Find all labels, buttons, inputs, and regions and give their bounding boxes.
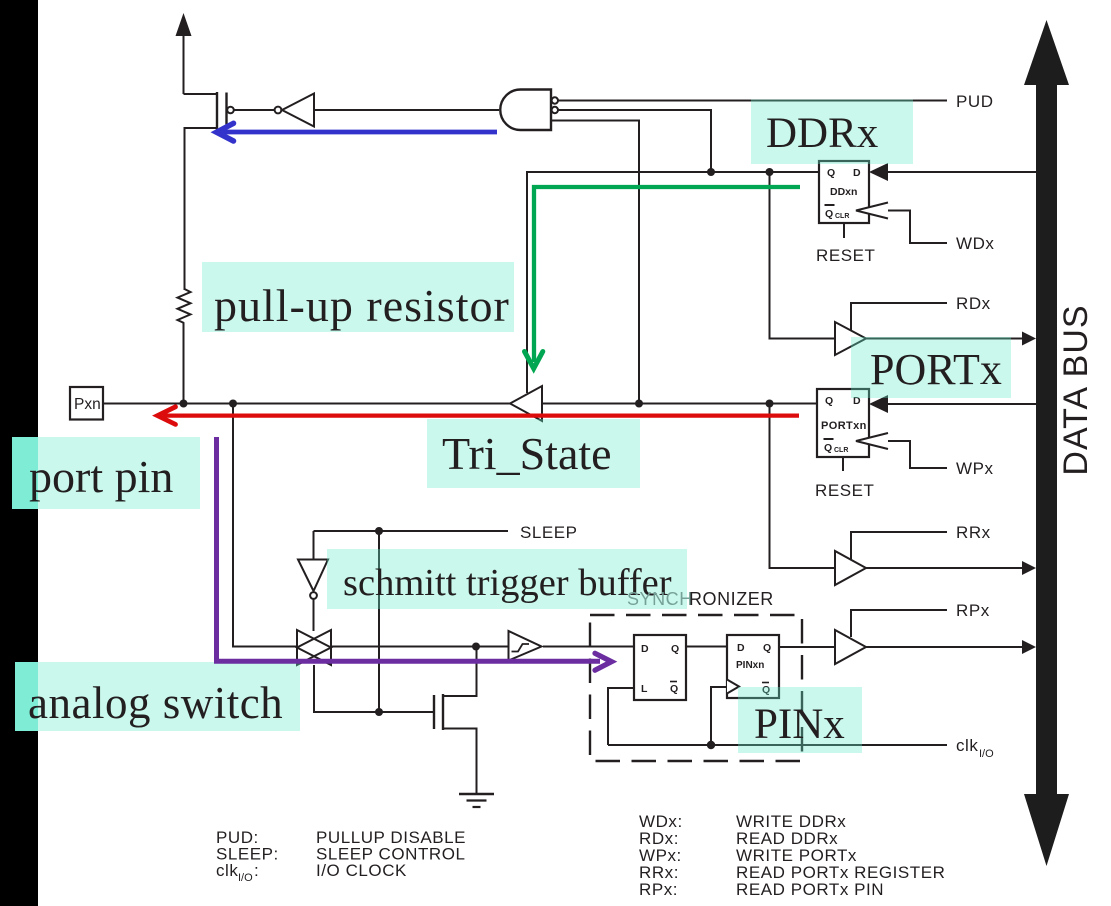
wire DDxn D input from data bus <box>888 171 1036 173</box>
svg-text::: : <box>254 861 259 880</box>
arrowhead into bus (RDx) <box>1022 332 1036 346</box>
svg-text:schmitt trigger buffer: schmitt trigger buffer <box>343 562 672 604</box>
svg-text:D: D <box>853 167 861 179</box>
legend PUD <box>216 812 945 899</box>
svg-text:Tri_State: Tri_State <box>442 428 612 479</box>
wire PORTxn Q to tri-state input <box>542 403 817 405</box>
node junction pin/input-path <box>229 400 237 408</box>
svg-text:Q: Q <box>824 442 832 454</box>
wire clk io net <box>608 744 947 746</box>
wire DDxn Q to tri-state enable <box>527 172 819 393</box>
highlight analog switch <box>15 662 300 731</box>
data bus DATA BUS double arrow <box>1024 20 1069 866</box>
wire PORTxn reset stub <box>842 457 844 471</box>
svg-text:DDxn: DDxn <box>830 186 857 198</box>
wire RPx enable <box>851 610 947 637</box>
node junction PORTxn Q / RRx tap <box>766 400 774 408</box>
svg-text:I/O: I/O <box>979 748 994 760</box>
flip-flop U3 DDxn <box>819 161 888 223</box>
svg-text:Q: Q <box>763 642 771 654</box>
wire DDxn reset stub <box>843 223 845 238</box>
svg-text:I/O: I/O <box>238 872 253 884</box>
wire pin line (Pxn to tri-state output) <box>103 403 510 405</box>
highlight PORTx <box>851 337 1011 398</box>
svg-text:RPx:: RPx: <box>639 880 678 899</box>
VCC supply arrow <box>176 13 192 94</box>
wire RRx buffer to data bus <box>866 567 1023 569</box>
svg-text:DATA BUS: DATA BUS <box>1057 304 1095 475</box>
svg-text:PORTx: PORTx <box>870 345 1002 394</box>
flip-flop U6 PORTxn <box>817 389 888 457</box>
wire clk to PINxn clock <box>711 687 727 745</box>
svg-text:RESET: RESET <box>815 481 874 500</box>
inverter U2 (pull-up control) <box>275 94 499 127</box>
svg-text:clk: clk <box>956 736 978 755</box>
wire RDx enable <box>851 303 947 330</box>
transistor Q2 sleep clamp NMOS <box>434 647 477 795</box>
svg-text:PORTxn: PORTxn <box>821 420 867 432</box>
svg-text:D: D <box>641 643 649 655</box>
node junction clk tap <box>707 741 715 749</box>
transistor Q1 pull-up PMOS <box>184 92 234 290</box>
highlight Tri_State <box>427 419 640 488</box>
svg-text:RDx: RDx <box>956 294 991 313</box>
svg-text:RRx: RRx <box>956 523 991 542</box>
ground <box>459 794 494 807</box>
svg-text:PINx: PINx <box>754 701 845 748</box>
label clk I/O <box>956 736 994 760</box>
svg-text:DDRx: DDRx <box>766 110 878 157</box>
wire PORTxn Q to RRx buffer input <box>770 404 836 569</box>
wire SLEEP net <box>314 530 509 532</box>
arrow blue (pull-up enable path) <box>217 123 498 141</box>
wire PINxn Q to RPx buffer <box>779 646 835 648</box>
svg-text:clk: clk <box>216 861 238 880</box>
svg-text:RESET: RESET <box>816 246 875 265</box>
svg-text:I/O CLOCK: I/O CLOCK <box>316 861 407 880</box>
wire analog switch to schmitt trigger <box>331 646 508 648</box>
synchronizer dashed box <box>590 615 802 761</box>
svg-text:CLR: CLR <box>834 447 848 454</box>
svg-text:pull-up resistor: pull-up resistor <box>214 280 510 331</box>
wire pin to analog switch <box>233 404 297 647</box>
svg-text:analog switch: analog switch <box>28 678 283 728</box>
wire SLEEP to inverter <box>313 531 315 559</box>
latch U11 (D latch) <box>634 635 686 700</box>
wire analog switch bottom to NMOS gate <box>314 665 434 712</box>
wire RRx enable <box>851 532 947 559</box>
highlight schmitt trigger buffer <box>327 549 687 609</box>
highlight port pin <box>12 437 200 509</box>
label SYNCHRONIZER <box>627 589 774 609</box>
svg-text:Pxn: Pxn <box>74 396 101 413</box>
wire DDxn Q to RDx buffer input <box>770 172 836 339</box>
wire WDx to DDxn clock <box>888 211 947 244</box>
arrow green (DDxn to tri-state enable) <box>525 187 801 369</box>
wire schmitt output to latch D <box>543 646 634 648</box>
node junction on DDxn Q line (RDx tap) <box>766 168 774 176</box>
svg-text:Q: Q <box>825 208 833 220</box>
left black sidebar <box>0 0 38 906</box>
analog switch SW1 (bowtie) <box>297 630 331 665</box>
svg-text:READ PORTx PIN: READ PORTx PIN <box>736 880 884 899</box>
wire resistor to pin line <box>183 323 185 404</box>
highlight DDRx <box>751 100 913 165</box>
wire latch Q to PINxn D <box>686 646 727 648</box>
svg-text:L: L <box>641 683 648 695</box>
wire PUD net <box>558 100 947 102</box>
highlight pull-up resistor <box>202 262 514 332</box>
svg-text:Q: Q <box>671 643 679 655</box>
tri-state buffer U5 (output driver) <box>510 386 542 421</box>
svg-text:D: D <box>737 642 745 654</box>
flip-flop U12 PINxn <box>727 635 779 698</box>
wire WPx to PORTxn clock <box>888 441 947 468</box>
wire latch L to clk line <box>608 688 634 745</box>
svg-text:RONIZER: RONIZER <box>689 589 774 609</box>
buffer U7 RRx (read PORTx register) <box>835 551 866 585</box>
wire PORTxn D input from data bus <box>888 403 1036 405</box>
svg-text:Q: Q <box>670 683 678 695</box>
arrowhead into bus (RPx) <box>1022 640 1036 654</box>
wire RPx buffer to data bus <box>866 646 1023 648</box>
buffer U8 RPx (read port pin) <box>835 630 866 664</box>
svg-text:PUD: PUD <box>956 92 994 111</box>
resistor R1 pull-up <box>178 289 191 323</box>
inverter U9 (sleep control) <box>298 560 328 632</box>
wire gate bottom input to PORTxn Q line <box>551 121 639 404</box>
wire SLEEP to NMOS gate line <box>378 531 380 712</box>
wire RDx buffer to data bus <box>866 338 1023 340</box>
svg-text:SLEEP: SLEEP <box>520 523 578 542</box>
node junction pin/pull-up <box>180 400 188 408</box>
svg-text:port pin: port pin <box>29 451 173 502</box>
node junction on DDxn Q line (gate tap) <box>707 168 715 176</box>
wire gate mid input to DDxn Q line <box>558 110 711 172</box>
node junction SLEEP tap <box>375 527 383 535</box>
node junction sleep/gate <box>375 708 383 716</box>
svg-text:RPx: RPx <box>956 601 990 620</box>
highlight PINx <box>738 687 862 753</box>
svg-text:WPx: WPx <box>956 459 994 478</box>
gate U1 (AND, mirrored, 2 inverted inputs) <box>500 90 558 131</box>
node junction PORTxn Q / gate tap <box>635 400 643 408</box>
svg-text:Q: Q <box>825 395 833 407</box>
arrow purple (pin to synchronizer path) <box>217 437 612 670</box>
node Pxn port pin box <box>70 387 103 420</box>
wire PMOS gate to inverter <box>234 109 275 111</box>
svg-text:Q: Q <box>827 167 835 179</box>
schmitt trigger U10 <box>509 631 542 661</box>
arrow red (PORTxn to pin path) <box>158 407 800 425</box>
svg-text:PINxn: PINxn <box>736 660 764 671</box>
node junction schmitt input / NMOS drain <box>472 643 480 651</box>
svg-text:CLR: CLR <box>835 213 849 220</box>
svg-text:WDx: WDx <box>956 234 994 253</box>
arrowhead into bus (RRx) <box>1022 561 1036 575</box>
buffer U4 RDx (read DDRx) <box>835 322 866 355</box>
svg-text:SYNCH: SYNCH <box>627 589 693 609</box>
